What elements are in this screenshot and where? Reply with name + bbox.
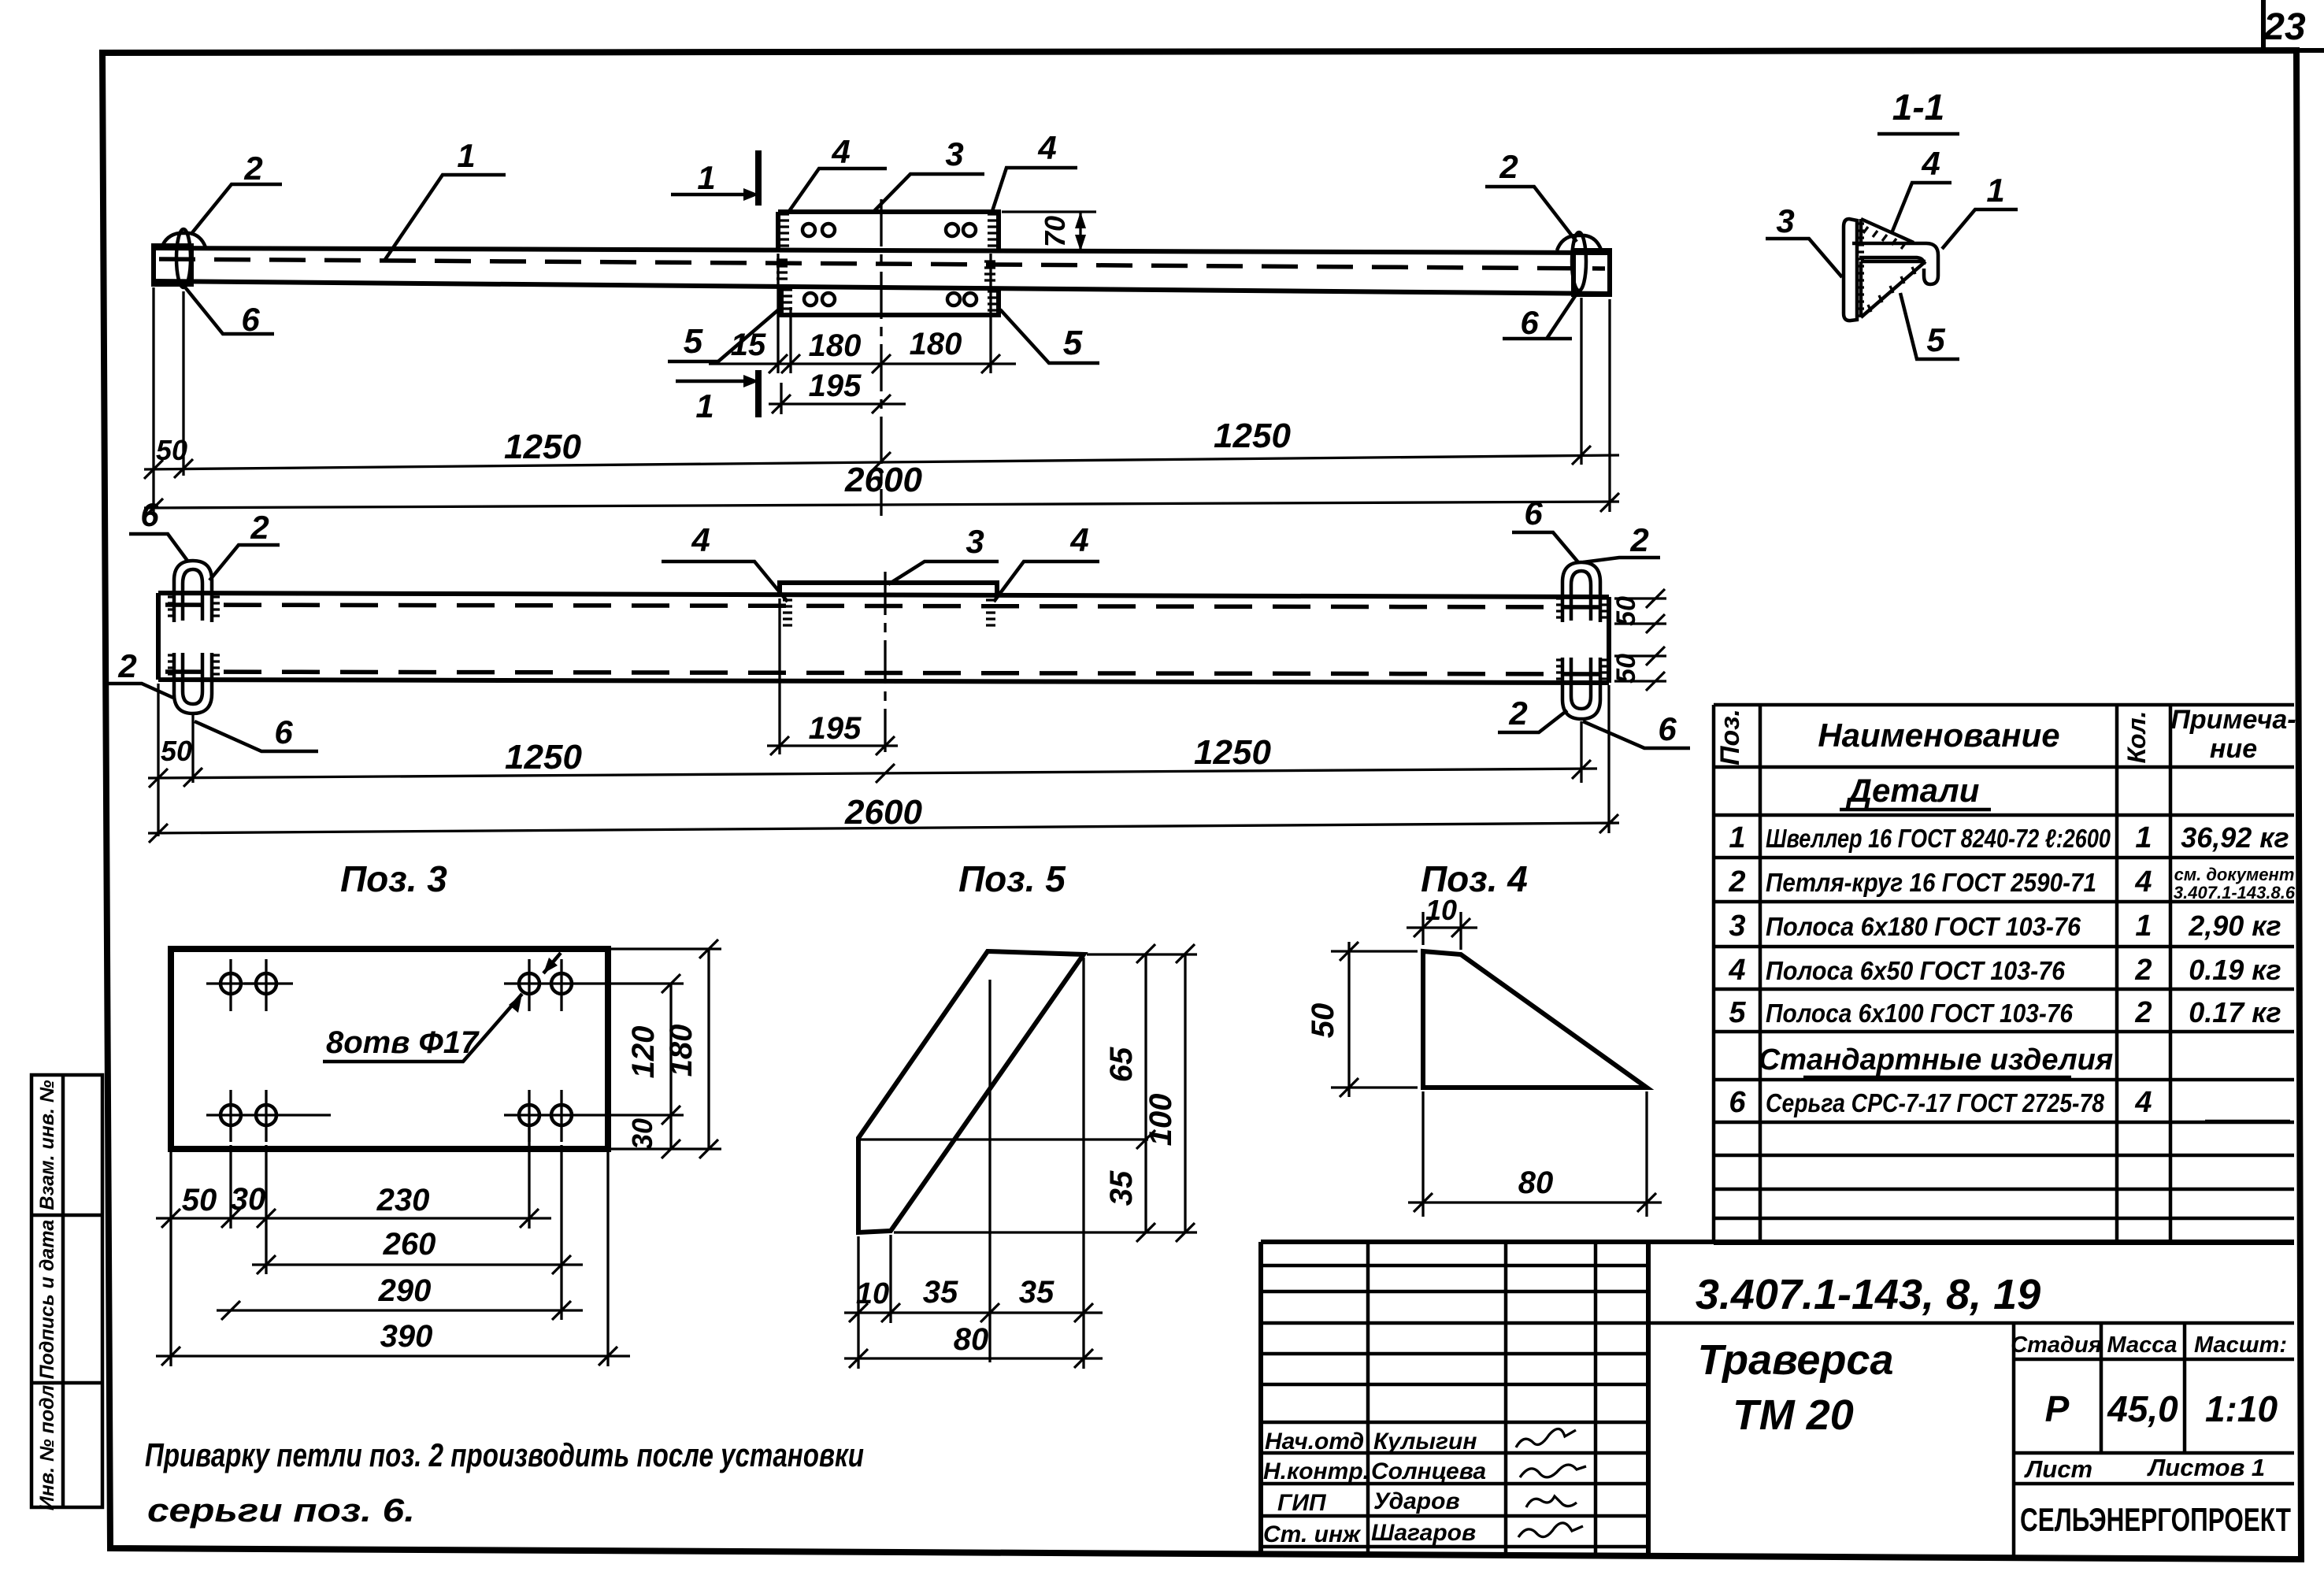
shackle poz.6 right (front) bbox=[1572, 232, 1586, 291]
svg-text:Ст. инж: Ст. инж bbox=[1263, 1521, 1362, 1547]
row Detali bbox=[1840, 772, 1991, 810]
svg-text:6: 6 bbox=[1520, 304, 1539, 341]
gusset poz.4 outline bbox=[1423, 951, 1647, 1088]
svg-text:Кол.: Кол. bbox=[2122, 711, 2151, 764]
label 2 right (front) bbox=[1485, 148, 1577, 242]
svg-text:6: 6 bbox=[1729, 1086, 1746, 1119]
weld hatch lower plate left bbox=[777, 260, 792, 309]
svg-text:70: 70 bbox=[1039, 216, 1071, 247]
label 1 (section) bbox=[1942, 172, 2018, 249]
row 4 Polosa 6x50 bbox=[1728, 954, 2281, 987]
dimension 180 vertical (pos3) bbox=[611, 939, 721, 1158]
svg-text:Петля-круг 16 ГОСТ 2590-71: Петля-круг 16 ГОСТ 2590-71 bbox=[1766, 868, 2096, 897]
weld hatch plate right (plan) bbox=[986, 600, 995, 625]
weld hatch left upper loop bbox=[168, 597, 220, 616]
label 6 left (front) bbox=[186, 288, 274, 338]
gusset poz.4 (section) bbox=[1861, 219, 1914, 249]
svg-text:50: 50 bbox=[1611, 596, 1641, 626]
svg-text:4: 4 bbox=[1069, 521, 1088, 558]
label 4 left (front) bbox=[788, 133, 887, 213]
label 2 left (front) bbox=[191, 150, 282, 235]
loop poz.2 right upper (plan) bbox=[1562, 562, 1600, 622]
svg-text:4: 4 bbox=[831, 133, 850, 170]
label 5 (section) bbox=[1900, 293, 1959, 359]
svg-text:80: 80 bbox=[1518, 1165, 1554, 1200]
svg-text:СЕЛЬЭНЕРГОПРОЕКТ: СЕЛЬЭНЕРГОПРОЕКТ bbox=[2020, 1501, 2291, 1538]
svg-text:4: 4 bbox=[1728, 954, 1745, 987]
shackle poz.6 left (front) bbox=[176, 229, 191, 287]
weld hatch lower plate right bbox=[984, 261, 997, 310]
svg-text:2: 2 bbox=[1508, 695, 1527, 732]
channel beam poz.1 front view bbox=[154, 248, 1610, 294]
plate poz.3 edge-on (section) bbox=[1844, 219, 1864, 321]
label 4 (section) bbox=[1892, 145, 1951, 233]
row 3 Polosa 6x180 bbox=[1729, 910, 2281, 943]
parts table grid bbox=[1714, 705, 2294, 1243]
dimension 195 (plan) bbox=[767, 598, 898, 755]
svg-text:Стандартные изделия: Стандартные изделия bbox=[1759, 1043, 2113, 1077]
dimension 50 30 230 (pos3) bbox=[156, 1182, 551, 1228]
svg-text:Лист: Лист bbox=[2024, 1455, 2092, 1483]
svg-text:8отв Ф17: 8отв Ф17 bbox=[326, 1025, 480, 1060]
svg-text:Ударов: Ударов bbox=[1373, 1488, 1460, 1514]
extension lines bottom (pos3) bbox=[171, 1126, 608, 1366]
svg-text:Масшт:: Масшт: bbox=[2194, 1332, 2287, 1358]
svg-text:Примеча-: Примеча- bbox=[2170, 705, 2296, 735]
drawing name Traversa TM 20 bbox=[1697, 1323, 2014, 1556]
svg-text:1: 1 bbox=[2135, 910, 2152, 943]
hole B4 bbox=[551, 1090, 572, 1142]
gusset poz.5 outline bbox=[858, 951, 1084, 1232]
label 8otv F17 bbox=[323, 953, 561, 1062]
svg-text:50: 50 bbox=[1306, 1003, 1340, 1039]
dimension 50 / 1250 / 1250 (front) bbox=[144, 287, 1619, 516]
svg-text:35: 35 bbox=[1104, 1170, 1139, 1206]
svg-text:2600: 2600 bbox=[844, 793, 922, 832]
section cut mark 1 lower bbox=[676, 370, 759, 424]
svg-text:2: 2 bbox=[2134, 996, 2152, 1029]
svg-text:0.19 кг: 0.19 кг bbox=[2189, 954, 2281, 986]
svg-text:см. документ: см. документ bbox=[2174, 865, 2295, 884]
svg-text:180: 180 bbox=[664, 1025, 699, 1077]
svg-text:5: 5 bbox=[1926, 321, 1945, 358]
svg-text:10: 10 bbox=[1425, 894, 1457, 926]
svg-text:0.17 кг: 0.17 кг bbox=[2189, 996, 2281, 1028]
svg-text:1250: 1250 bbox=[1214, 417, 1291, 455]
svg-text:195: 195 bbox=[809, 711, 862, 746]
svg-text:ТМ 20: ТМ 20 bbox=[1733, 1392, 1854, 1439]
svg-text:Масса: Масса bbox=[2107, 1332, 2177, 1358]
svg-text:1250: 1250 bbox=[1194, 733, 1271, 772]
hole A4 bbox=[551, 959, 572, 1011]
label 6 bottom left (plan) bbox=[195, 713, 318, 751]
dimension 2600 (front) bbox=[144, 461, 1619, 517]
svg-text:6: 6 bbox=[274, 713, 293, 750]
label 3 (section) bbox=[1766, 202, 1842, 277]
svg-text:Р: Р bbox=[2045, 1388, 2070, 1429]
svg-text:390: 390 bbox=[380, 1319, 433, 1354]
organization name bbox=[2020, 1501, 2291, 1538]
hole A3 bbox=[504, 959, 684, 1011]
svg-text:50: 50 bbox=[182, 1183, 217, 1217]
row Standartnye izdeliya bbox=[1759, 1043, 2113, 1077]
label 6 right (front) bbox=[1503, 291, 1578, 341]
svg-text:Н.контр.: Н.контр. bbox=[1263, 1458, 1370, 1484]
svg-text:4: 4 bbox=[2134, 1086, 2152, 1119]
label 4 right (front) bbox=[992, 129, 1077, 211]
dimension 65 / 35 (pos5) bbox=[1104, 944, 1155, 1242]
page number box bbox=[2263, 0, 2324, 50]
svg-text:50: 50 bbox=[1611, 654, 1641, 684]
svg-text:290: 290 bbox=[378, 1273, 432, 1308]
label 6 top right (plan) bbox=[1512, 495, 1578, 562]
channel beam poz.1 plan view bbox=[158, 593, 1609, 683]
svg-text:120: 120 bbox=[626, 1026, 661, 1079]
weld hatch right lower loop bbox=[1556, 660, 1608, 679]
left margin stamp boxes bbox=[32, 1075, 102, 1510]
signature squiggles bbox=[1516, 1429, 1586, 1537]
loop poz.2 left upper (plan) bbox=[174, 561, 212, 622]
svg-text:6: 6 bbox=[1658, 710, 1677, 747]
svg-text:Полоса 6х180 ГОСТ 103-76: Полоса 6х180 ГОСТ 103-76 bbox=[1766, 912, 2081, 941]
svg-text:2600: 2600 bbox=[844, 461, 922, 499]
svg-text:Полоса 6х50 ГОСТ 103-76: Полоса 6х50 ГОСТ 103-76 bbox=[1766, 956, 2066, 985]
plate poz.3 upper part (front) bbox=[778, 212, 999, 250]
svg-text:ние: ние bbox=[2210, 734, 2257, 764]
dimension 290 (pos3) bbox=[217, 1273, 583, 1320]
svg-text:45,0: 45,0 bbox=[2107, 1388, 2178, 1429]
dimension 70 (front) bbox=[1002, 212, 1096, 251]
beam left end cap bbox=[154, 246, 191, 284]
gusset poz.5 (section) bbox=[1861, 261, 1926, 317]
svg-text:3.407.1-143.8.6: 3.407.1-143.8.6 bbox=[2174, 883, 2296, 902]
hole A2 bbox=[244, 959, 293, 1011]
dimension 15 / 180 / 180 (front) bbox=[709, 254, 1016, 373]
svg-text:4: 4 bbox=[1037, 129, 1056, 166]
svg-text:Стадия: Стадия bbox=[2011, 1332, 2102, 1358]
label 6 top left (plan) bbox=[129, 496, 187, 561]
label 3 (plan) bbox=[888, 523, 999, 584]
dimension 120 / 30 (pos3) bbox=[626, 974, 680, 1158]
section cut mark 1 upper bbox=[671, 150, 759, 206]
svg-text:1: 1 bbox=[457, 137, 475, 174]
label 1 beam (front) bbox=[384, 137, 506, 261]
loop poz.2 right (front) bbox=[1557, 235, 1601, 250]
label 4 right (plan) bbox=[994, 521, 1099, 602]
svg-text:5: 5 bbox=[1729, 996, 1746, 1029]
svg-text:2: 2 bbox=[117, 647, 136, 684]
svg-text:1: 1 bbox=[1986, 172, 2004, 209]
svg-text:1250: 1250 bbox=[505, 738, 582, 776]
label 5 right (front) bbox=[1000, 309, 1099, 363]
hole B2 bbox=[256, 1090, 276, 1142]
dimension 2600 (plan) bbox=[148, 793, 1619, 843]
svg-text:3: 3 bbox=[945, 135, 963, 172]
hole A1 bbox=[206, 959, 255, 1011]
svg-text:1250: 1250 bbox=[504, 428, 581, 466]
dimension 260 (pos3) bbox=[252, 1227, 583, 1274]
svg-text:Поз. 3: Поз. 3 bbox=[340, 858, 447, 899]
svg-text:Нач.отд: Нач.отд bbox=[1265, 1429, 1364, 1455]
section title 1-1 bbox=[1877, 87, 1959, 134]
svg-text:Поз. 5: Поз. 5 bbox=[958, 858, 1066, 899]
dimension 80 (pos4) bbox=[1408, 1091, 1662, 1217]
svg-text:3: 3 bbox=[966, 523, 984, 560]
dimension 10 (pos4) bbox=[1407, 894, 1477, 950]
svg-text:Взам. инв. №: Взам. инв. № bbox=[36, 1080, 58, 1210]
centerline (plan) bbox=[884, 572, 886, 758]
svg-text:3: 3 bbox=[1729, 910, 1745, 943]
svg-text:1: 1 bbox=[1729, 821, 1745, 854]
hole B1 bbox=[206, 1090, 331, 1142]
hole B3 bbox=[504, 1090, 684, 1142]
row 5 Polosa 6x100 bbox=[1729, 996, 2281, 1029]
svg-text:Листов 1: Листов 1 bbox=[2147, 1454, 2265, 1481]
svg-text:1: 1 bbox=[2135, 821, 2152, 854]
dimension 10 35 35 (pos5) bbox=[844, 1275, 1103, 1322]
svg-text:2: 2 bbox=[1629, 521, 1648, 558]
svg-text:Кулыгин: Кулыгин bbox=[1373, 1429, 1477, 1455]
row 2 Petlya bbox=[1728, 865, 2295, 902]
svg-text:3.407.1-143, 8, 19: 3.407.1-143, 8, 19 bbox=[1696, 1271, 2040, 1318]
svg-text:Наименование: Наименование bbox=[1818, 717, 2059, 754]
svg-text:2: 2 bbox=[1728, 865, 1745, 899]
svg-text:Полоса 6х100 ГОСТ 103-76: Полоса 6х100 ГОСТ 103-76 bbox=[1766, 999, 2074, 1028]
loop poz.2 right lower (plan) bbox=[1562, 658, 1600, 719]
svg-text:2,90 кг: 2,90 кг bbox=[2188, 910, 2281, 942]
right vertical extension (pos5) bbox=[894, 954, 1197, 1369]
svg-text:80: 80 bbox=[954, 1322, 989, 1357]
svg-text:2: 2 bbox=[250, 509, 269, 546]
svg-text:Солнцева: Солнцева bbox=[1371, 1458, 1486, 1484]
svg-text:65: 65 bbox=[1104, 1047, 1139, 1082]
centerline (pos5) bbox=[988, 980, 991, 1362]
svg-text:Швеллер 16 ГОСТ 8240-72 ℓ:2600: Швеллер 16 ГОСТ 8240-72 ℓ:2600 bbox=[1766, 824, 2111, 853]
dimension 50-50 right side (plan) bbox=[1611, 589, 1666, 691]
svg-text:Траверса: Траверса bbox=[1697, 1336, 1893, 1384]
plate poz.3 (plan) bbox=[780, 583, 997, 596]
svg-text:Серьга СРС-7-17 ГОСТ 2725-78: Серьга СРС-7-17 ГОСТ 2725-78 bbox=[1766, 1088, 2105, 1117]
label 4 left (plan) bbox=[662, 521, 788, 602]
centerline of beam (front) bbox=[880, 199, 882, 516]
signature rows text bbox=[1263, 1429, 1486, 1547]
weld hatch right upper loop bbox=[1556, 598, 1608, 617]
svg-text:180: 180 bbox=[910, 327, 962, 361]
loop poz.2 left (front) bbox=[161, 233, 206, 248]
dimension 50 (pos4) bbox=[1306, 942, 1418, 1097]
svg-text:260: 260 bbox=[383, 1227, 436, 1262]
svg-text:4: 4 bbox=[2134, 865, 2152, 899]
svg-text:2: 2 bbox=[2134, 954, 2152, 987]
extension lines bottom (pos5) bbox=[858, 1235, 891, 1369]
label 5 left (front) bbox=[668, 309, 780, 361]
svg-text:2: 2 bbox=[1499, 148, 1518, 185]
dimension 195 (front) bbox=[769, 369, 906, 414]
svg-text:100: 100 bbox=[1143, 1094, 1178, 1147]
svg-text:1-1: 1-1 bbox=[1892, 87, 1944, 128]
dimension 100 (pos5) bbox=[1143, 944, 1195, 1242]
dimension 80 (pos5) bbox=[844, 1322, 1103, 1368]
svg-text:35: 35 bbox=[923, 1275, 958, 1310]
svg-text:36,92 кг: 36,92 кг bbox=[2181, 821, 2289, 854]
plate poz.3 lower part (front) bbox=[781, 287, 999, 315]
svg-text:30: 30 bbox=[626, 1118, 658, 1150]
svg-text:6: 6 bbox=[1524, 495, 1543, 532]
svg-text:Подпись и дата: Подпись и дата bbox=[36, 1220, 58, 1380]
plate poz.3 outline bbox=[171, 949, 608, 1149]
svg-text:230: 230 bbox=[376, 1183, 430, 1217]
svg-text:Шагаров: Шагаров bbox=[1371, 1520, 1476, 1546]
weld hatch plate left (plan) bbox=[783, 600, 792, 625]
svg-text:2: 2 bbox=[243, 150, 262, 187]
svg-text:4: 4 bbox=[691, 521, 710, 558]
label 6 bottom right (plan) bbox=[1583, 710, 1690, 748]
svg-text:1: 1 bbox=[695, 387, 714, 424]
svg-text:5: 5 bbox=[1063, 324, 1083, 362]
svg-text:35: 35 bbox=[1019, 1275, 1055, 1310]
label 2 bottom right (plan) bbox=[1498, 695, 1567, 732]
svg-text:6: 6 bbox=[140, 496, 159, 533]
svg-text:серьги поз. 6.: серьги поз. 6. bbox=[147, 1492, 415, 1529]
svg-text:Инв. № подл.: Инв. № подл. bbox=[36, 1380, 58, 1510]
channel poz.1 (section) bbox=[1852, 243, 1938, 284]
svg-text:30: 30 bbox=[231, 1182, 266, 1217]
svg-text:195: 195 bbox=[809, 369, 862, 403]
svg-text:50: 50 bbox=[156, 434, 187, 466]
dimension 50 / 1250 / 1250 (plan) bbox=[148, 684, 1609, 836]
svg-text:3: 3 bbox=[1776, 202, 1794, 239]
document number cell bbox=[1648, 1271, 2294, 1323]
mid extension line (pos5) bbox=[861, 1138, 1148, 1140]
svg-text:4: 4 bbox=[1921, 145, 1940, 182]
svg-text:180: 180 bbox=[809, 328, 862, 363]
svg-text:1: 1 bbox=[697, 159, 715, 196]
loop poz.2 left lower (plan) bbox=[174, 653, 212, 713]
row 1 Shveller bbox=[1729, 821, 2289, 854]
svg-text:10: 10 bbox=[856, 1277, 889, 1310]
svg-text:50: 50 bbox=[161, 735, 192, 767]
weld hatch left lower loop bbox=[168, 655, 220, 674]
dimension 390 (pos3) bbox=[156, 1319, 630, 1366]
svg-text:Поз.: Поз. bbox=[1715, 709, 1745, 765]
svg-text:5: 5 bbox=[684, 322, 703, 361]
svg-text:1:10: 1:10 bbox=[2205, 1388, 2278, 1429]
list row bbox=[2014, 1454, 2294, 1484]
label 3 (front) bbox=[874, 135, 984, 211]
label 2 bottom left (plan) bbox=[107, 647, 173, 698]
title block grid bbox=[1261, 1242, 2294, 1556]
svg-text:Приварку петли поз. 2 прои: Приварку петли поз. 2 производить после … bbox=[145, 1436, 864, 1473]
svg-text:Детали: Детали bbox=[1846, 772, 1980, 809]
parts table header bbox=[1715, 705, 2296, 765]
weld hatch upper plate left bbox=[780, 214, 789, 246]
svg-text:23: 23 bbox=[2263, 6, 2306, 48]
stage mass scale cells bbox=[2011, 1323, 2294, 1453]
beam right end cap bbox=[1573, 250, 1610, 295]
row 6 Serga bbox=[1729, 1086, 2290, 1121]
label 2 top right (plan) bbox=[1583, 521, 1660, 562]
svg-text:15: 15 bbox=[731, 328, 766, 362]
svg-text:ГИП: ГИП bbox=[1277, 1490, 1327, 1516]
weld hatch upper plate right bbox=[988, 214, 997, 246]
label 2 top left (plan) bbox=[209, 509, 280, 580]
